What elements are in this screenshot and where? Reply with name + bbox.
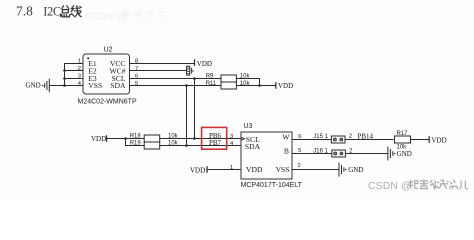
svg-text:7: 7 <box>135 66 138 72</box>
resistor R19 <box>130 141 179 149</box>
connector J16 <box>313 149 353 157</box>
svg-text:2: 2 <box>298 163 301 169</box>
wire R19 out to U3 SDA <box>160 145 241 147</box>
svg-text:R19: R19 <box>130 141 142 147</box>
wire VDD to U3 pin1 <box>207 169 241 171</box>
svg-text:R18: R18 <box>130 134 142 140</box>
svg-text:VDD: VDD <box>91 135 106 143</box>
node SDA join <box>185 144 188 147</box>
svg-text:B: B <box>284 147 289 156</box>
svg-text:J16 1: J16 1 <box>313 149 328 155</box>
bottom watermark CJK <box>409 180 469 190</box>
wire pin4 VSS <box>49 85 83 87</box>
U3 clock mark on SCL <box>241 137 244 140</box>
svg-text:MCP4017T-104ELT: MCP4017T-104ELT <box>241 182 303 189</box>
wire R17 to VDD <box>411 139 430 141</box>
ground GND VSS <box>339 163 363 177</box>
wire pin3 E3 <box>64 78 83 80</box>
wire R9 out <box>236 79 259 86</box>
chip U3 body <box>241 132 292 179</box>
svg-text:VDD: VDD <box>432 136 447 144</box>
svg-text:W: W <box>282 133 290 142</box>
power VDD right of pullups <box>276 82 293 90</box>
resistor R11 <box>206 81 251 89</box>
svg-text:GND: GND <box>397 150 412 158</box>
svg-text:GND: GND <box>348 166 363 174</box>
svg-text:M24C02-WMN6TP: M24C02-WMN6TP <box>78 99 137 106</box>
svg-text:7.8: 7.8 <box>16 4 33 19</box>
wire J16 to GND <box>345 153 388 155</box>
svg-text:J15 1: J15 1 <box>313 134 328 140</box>
resistor R18 <box>130 134 179 143</box>
U2 pin-1 dot <box>87 57 89 59</box>
wire pin7 WC# <box>130 70 187 72</box>
node bus-pin3 <box>63 77 66 80</box>
wire pin5 SDA <box>130 85 222 87</box>
title CJK xian <box>71 6 82 17</box>
svg-text:U3: U3 <box>244 123 253 130</box>
svg-text:VDD: VDD <box>197 60 212 68</box>
svg-text:CSDN @: CSDN @ <box>368 181 412 192</box>
svg-text:PB7: PB7 <box>209 139 222 147</box>
wire pin2 E2 <box>64 70 83 72</box>
wire pin8 VCC to VDD <box>130 63 195 65</box>
wire R11 out to VDD <box>236 85 275 87</box>
svg-text:I2C: I2C <box>43 5 61 19</box>
wire pin6 SCL <box>130 78 222 80</box>
svg-text:VDD: VDD <box>278 82 293 90</box>
wire pin1 E1 <box>64 63 83 65</box>
node SDA drop <box>185 84 188 87</box>
wire branch down to R19 <box>126 139 145 146</box>
resistor R17 <box>395 131 411 151</box>
power VDD lower-left <box>91 135 107 143</box>
svg-text:VSS: VSS <box>88 81 102 90</box>
node R9-R11 join <box>258 84 261 87</box>
svg-text:R9: R9 <box>206 73 214 79</box>
wire U3 W to J15 <box>292 139 331 141</box>
svg-text:SDA: SDA <box>245 142 261 151</box>
svg-text:SDA: SDA <box>110 81 126 90</box>
ground GND left of U2 <box>26 79 50 92</box>
connector J15 <box>313 134 353 143</box>
ground GND J16 <box>388 147 412 161</box>
svg-text:R11: R11 <box>206 81 217 87</box>
wire SDA vertical drop <box>186 86 188 146</box>
wire SCL vertical drop <box>194 79 196 139</box>
wire left bus vertical <box>64 64 66 86</box>
svg-text:GND: GND <box>26 82 41 90</box>
node bus-pin2 <box>63 69 66 72</box>
svg-text:CSDN @: CSDN @ <box>84 12 127 23</box>
power VDD above U3 pin1 <box>190 166 207 174</box>
capacitor on WC# <box>187 66 194 75</box>
node SCL drop <box>193 77 196 80</box>
svg-text:VDD: VDD <box>246 165 263 174</box>
svg-text:U2: U2 <box>104 46 113 53</box>
svg-text:2: 2 <box>78 66 81 72</box>
wire VDD to R18 and SCL row <box>107 138 145 140</box>
svg-text:4: 4 <box>230 141 234 147</box>
power VDD top <box>195 59 212 68</box>
node bus-pin4 <box>63 84 66 87</box>
svg-text:VDD: VDD <box>190 166 205 174</box>
resistor R9 <box>206 73 251 82</box>
wire U3 B to J16 <box>292 153 332 155</box>
red annotation box <box>202 127 227 149</box>
power VDD right <box>429 136 446 144</box>
wire R18 out to U3 SCL <box>160 138 241 140</box>
title CJK zong <box>60 6 69 17</box>
node branch R19 <box>124 137 127 140</box>
wire U3 VSS to GND <box>292 169 339 171</box>
wire J15 to R17 <box>345 139 394 141</box>
chip U2 body <box>83 54 130 94</box>
svg-text:R17: R17 <box>397 131 409 137</box>
node SCL join <box>193 137 196 140</box>
svg-text:VSS: VSS <box>276 165 290 174</box>
